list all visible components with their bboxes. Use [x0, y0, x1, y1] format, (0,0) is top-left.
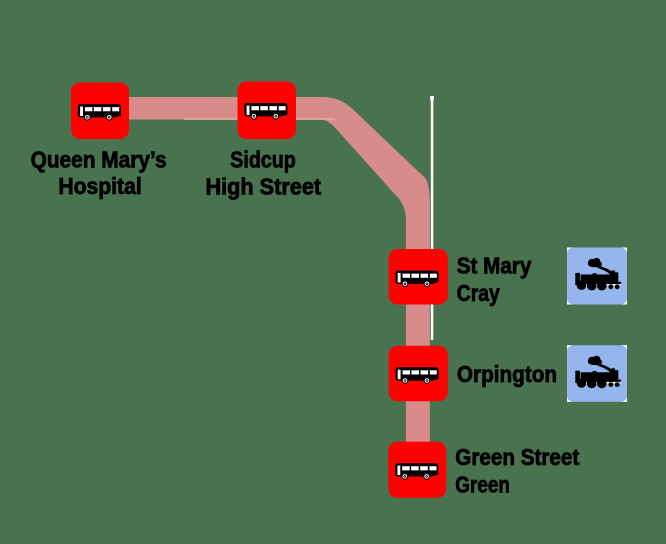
- bus stop icon: Sidcup High Street: [238, 82, 297, 140]
- route lighter underlay step: [184, 118, 335, 120]
- svg-text:Green Street: Green Street: [455, 444, 579, 470]
- route line: Queen Mary's Hospital to Green Street Green: [100, 97, 430, 470]
- svg-text:High Street: High Street: [206, 173, 322, 199]
- bus stop icon: Queen Mary's Hospital: [71, 83, 129, 140]
- svg-text:Hospital: Hospital: [58, 173, 141, 199]
- svg-text:Cray: Cray: [457, 280, 500, 306]
- svg-text:Sidcup: Sidcup: [230, 146, 295, 172]
- svg-text:Orpington: Orpington: [457, 361, 557, 387]
- bus stop icon: Orpington: [389, 346, 448, 402]
- svg-text:Queen Mary’s: Queen Mary’s: [31, 146, 167, 172]
- bus stop icon: St Mary Cray: [389, 249, 448, 305]
- rail interchange icon: Orpington: [567, 345, 627, 402]
- svg-text:Green: Green: [455, 471, 510, 497]
- svg-text:St Mary: St Mary: [457, 252, 532, 278]
- white marker line tip: [430, 96, 434, 101]
- white marker line: [431, 97, 434, 340]
- bus stop icon: Green Street Green: [388, 442, 446, 498]
- rail interchange icon: St Mary Cray: [567, 248, 627, 305]
